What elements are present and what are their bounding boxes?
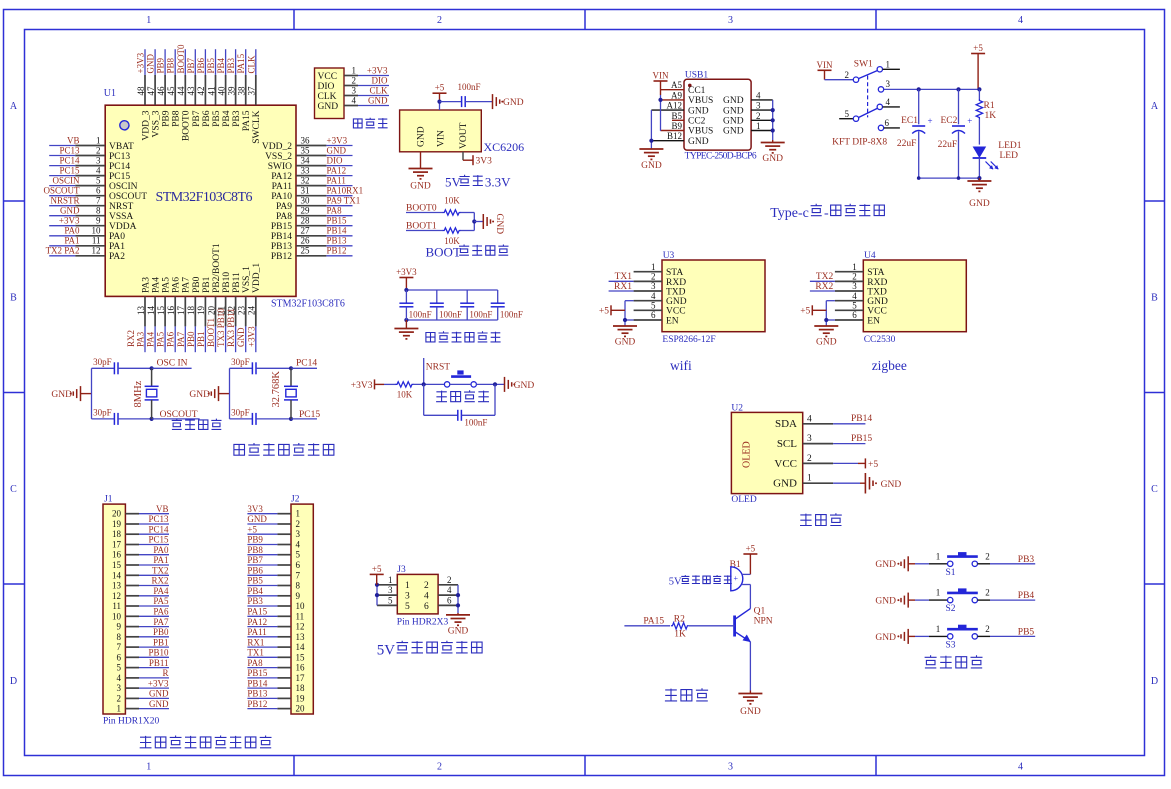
USB1 pin A5 (CC1) <box>661 89 685 91</box>
J1 pin 3 <box>125 687 139 689</box>
svg-text:12: 12 <box>112 591 121 601</box>
header J2 body <box>291 504 313 714</box>
svg-text:GND: GND <box>60 206 80 216</box>
wire net PC14 <box>139 533 169 535</box>
wire BOOT1 <box>406 230 443 232</box>
wire net PB1 <box>139 646 169 648</box>
svg-text:VCC: VCC <box>318 72 338 82</box>
wire net GND <box>49 215 75 217</box>
svg-text:VB: VB <box>67 135 80 145</box>
wire net PB5 <box>247 585 277 587</box>
wire net PB3 <box>235 49 237 75</box>
wire net PB10 <box>139 656 169 658</box>
svg-text:+5: +5 <box>599 307 609 317</box>
svg-text:16: 16 <box>166 306 176 316</box>
svg-text:14: 14 <box>296 642 306 652</box>
svg-text:2: 2 <box>96 145 101 155</box>
svg-text:CLK: CLK <box>318 92 337 102</box>
svg-text:PB3: PB3 <box>232 110 242 127</box>
svg-text:+: + <box>967 116 972 126</box>
resistor 10K upper <box>443 210 461 215</box>
wire net PB14 <box>326 235 352 237</box>
J2 pin 1 <box>277 513 291 515</box>
left vertical wire <box>91 368 93 419</box>
svg-text:3: 3 <box>756 101 761 111</box>
title 单片机引脚外引排针 <box>140 736 152 748</box>
wire net PA7 <box>184 326 186 352</box>
buzzer terminals <box>742 573 750 575</box>
svg-text:BOOT0: BOOT0 <box>176 44 186 73</box>
svg-text:3: 3 <box>886 79 891 89</box>
wire net PB13 <box>326 245 352 247</box>
wire net TX3 PB10 <box>225 326 227 352</box>
svg-text:PA9: PA9 <box>276 202 292 212</box>
J1 pin 12 <box>125 595 139 597</box>
svg-text:TX2 PA2: TX2 PA2 <box>46 246 80 256</box>
svg-text:PB10: PB10 <box>222 272 232 293</box>
svg-text:2: 2 <box>352 76 357 86</box>
svg-text:+: + <box>928 116 933 126</box>
stub to ground <box>474 221 483 223</box>
svg-text:4: 4 <box>424 592 429 602</box>
wire net TX2 <box>139 574 169 576</box>
svg-text:USB1: USB1 <box>685 71 708 81</box>
svg-text:45: 45 <box>166 86 176 96</box>
svg-text:3: 3 <box>807 434 812 444</box>
svg-text:GND: GND <box>448 627 469 637</box>
svg-text:PA1: PA1 <box>64 236 79 246</box>
svg-text:U3: U3 <box>663 251 675 261</box>
svg-text:+3V3: +3V3 <box>396 267 417 277</box>
svg-text:A: A <box>1151 101 1159 112</box>
svg-text:17: 17 <box>296 673 306 683</box>
U1 pin 38 (PA15) <box>245 75 247 105</box>
U1 pin 43 (PB7) <box>194 75 196 105</box>
svg-text:+3V3: +3V3 <box>351 381 373 391</box>
svg-text:5: 5 <box>651 301 656 311</box>
wire net PB0 <box>194 326 196 352</box>
U3 pin 6 (EN) <box>634 319 662 321</box>
svg-text:VCC: VCC <box>666 307 686 317</box>
svg-text:PB15: PB15 <box>247 668 268 678</box>
capacitor 100nF #1 <box>405 290 407 303</box>
dashed link <box>867 76 869 118</box>
svg-text:LED1: LED1 <box>998 141 1021 151</box>
wire net GND <box>358 105 389 107</box>
U1 pin 1 (VBAT) <box>75 145 105 147</box>
svg-text:1: 1 <box>146 762 151 773</box>
wire net +3V3 <box>144 49 146 75</box>
svg-text:2: 2 <box>424 581 429 591</box>
svg-text:PB3: PB3 <box>226 57 236 73</box>
wire net BOOT0 <box>184 49 186 75</box>
title 单片机最小系统 <box>234 444 245 455</box>
USB1 right pin 4 (GND) <box>751 99 773 101</box>
J1 pin 7 <box>125 646 139 648</box>
svg-text:PA15: PA15 <box>643 616 664 626</box>
svg-text:6: 6 <box>885 118 890 128</box>
J2 pin 2 <box>277 523 291 525</box>
svg-text:PB0: PB0 <box>153 627 169 637</box>
svg-text:PC15: PC15 <box>59 165 80 175</box>
svg-text:+3V3: +3V3 <box>136 52 146 73</box>
wire +5 to VIN <box>439 102 441 110</box>
U1 pin 5 (OSCIN) <box>75 185 105 187</box>
svg-text:VDD_1: VDD_1 <box>252 263 262 293</box>
USB1 right pin 1 (GND) <box>751 130 773 132</box>
svg-text:4: 4 <box>1018 15 1023 26</box>
U1 pin 15 (PA5) <box>164 296 166 326</box>
crystal 32.768K <box>290 368 292 386</box>
svg-text:RX3 PB11: RX3 PB11 <box>226 308 236 347</box>
USB1 right pin 2 (GND) <box>751 119 773 121</box>
U3 pin 3 (TXD) <box>634 290 662 292</box>
svg-text:BOOT0: BOOT0 <box>182 110 192 141</box>
svg-text:VDDA: VDDA <box>109 222 137 232</box>
svg-text:PA12: PA12 <box>247 617 267 627</box>
wire net VB <box>49 145 75 147</box>
svg-text:4: 4 <box>352 96 357 106</box>
wire net GND <box>154 49 156 75</box>
svg-text:LED: LED <box>1000 151 1019 161</box>
svg-text:7: 7 <box>96 196 101 206</box>
svg-text:GND: GND <box>149 689 169 699</box>
IC U3 body <box>662 260 765 332</box>
U3 pin 1 (STA) <box>634 271 662 273</box>
svg-text:PA12: PA12 <box>327 165 347 175</box>
svg-text:GND: GND <box>875 597 896 607</box>
U1 pin 30 (PA9) <box>296 205 326 207</box>
svg-text:5V: 5V <box>377 642 396 658</box>
USB1 pin B5 (CC2) <box>672 119 684 121</box>
svg-text:1: 1 <box>886 60 891 70</box>
J2 pin 20 <box>277 708 291 710</box>
push button S3 <box>948 634 953 639</box>
U2 pin 2 (VCC) <box>803 462 833 464</box>
svg-text:PB4: PB4 <box>247 586 263 596</box>
U1 pin 41 (PB5) <box>215 75 217 105</box>
svg-text:1: 1 <box>117 704 122 714</box>
wire net GND <box>247 523 277 525</box>
svg-text:PA11: PA11 <box>272 182 293 192</box>
svg-text:B5: B5 <box>671 111 682 121</box>
wire net DIO <box>326 165 352 167</box>
svg-text:KFT DIP-8X8: KFT DIP-8X8 <box>832 138 887 148</box>
title 复位电路 <box>436 391 447 402</box>
svg-text:U4: U4 <box>864 251 876 261</box>
U1 pin 48 (VDD_3) <box>144 75 146 105</box>
earth ground <box>814 325 838 327</box>
wire net PA10RX1 <box>326 195 352 197</box>
svg-text:30pF: 30pF <box>231 408 250 418</box>
gnd-en tie <box>625 300 634 302</box>
svg-text:GND: GND <box>875 633 896 643</box>
svg-text:VOUT: VOUT <box>459 122 469 149</box>
svg-text:15: 15 <box>156 306 166 316</box>
U2 pin 3 (SCL) <box>803 443 833 445</box>
wire to button <box>915 563 929 565</box>
svg-text:PB12: PB12 <box>247 699 267 709</box>
svg-text:1: 1 <box>352 66 357 76</box>
wire net CLK <box>358 95 389 97</box>
svg-text:PA6: PA6 <box>153 607 169 617</box>
svg-text:OSCIN: OSCIN <box>109 182 138 192</box>
J3 pin 5 stub <box>377 604 397 606</box>
capacitor 100nF <box>461 96 463 107</box>
svg-text:GND: GND <box>688 106 709 116</box>
svg-text:3: 3 <box>388 585 393 595</box>
svg-text:5: 5 <box>296 550 301 560</box>
bar ground rotated GND <box>482 214 484 229</box>
svg-text:A12: A12 <box>667 101 683 111</box>
earth ground USB right <box>772 140 774 143</box>
U1 pin 18 (PB0) <box>194 296 196 326</box>
wire net PA1 <box>49 245 75 247</box>
wire net +3V3 <box>255 326 257 352</box>
svg-text:17: 17 <box>176 306 186 316</box>
svg-text:2: 2 <box>117 693 122 703</box>
svg-text:39: 39 <box>226 86 236 96</box>
svg-text:R: R <box>162 668 168 678</box>
U3 pin 5 (VCC) <box>634 309 662 311</box>
svg-text:2: 2 <box>845 70 850 80</box>
svg-text:S1: S1 <box>945 568 955 578</box>
svg-text:11: 11 <box>112 601 121 611</box>
svg-text:SW1: SW1 <box>854 60 873 70</box>
svg-text:VIN: VIN <box>437 130 447 147</box>
capacitor 100nF #2 <box>436 290 438 303</box>
svg-text:2: 2 <box>985 551 990 561</box>
svg-text:PB1: PB1 <box>202 276 212 293</box>
svg-text:PB0: PB0 <box>192 276 202 293</box>
wire net +5 <box>247 533 277 535</box>
svg-text:PC14: PC14 <box>59 155 80 165</box>
J2 pin 11 <box>277 615 291 617</box>
svg-text:SDA: SDA <box>775 418 797 430</box>
svg-text:100nF: 100nF <box>464 418 487 428</box>
wire net PB9 <box>164 49 166 75</box>
svg-text:PA12: PA12 <box>271 172 292 182</box>
svg-text:CLK: CLK <box>370 86 389 96</box>
U4 pin 2 (RXD) <box>835 280 863 282</box>
svg-text:11: 11 <box>92 236 101 246</box>
title 晶振电路 <box>172 419 182 430</box>
svg-text:A: A <box>10 101 18 112</box>
U4 pin 4 (GND) <box>835 300 863 302</box>
svg-text:PA6: PA6 <box>166 331 176 347</box>
J3 pin 1 stub <box>377 584 397 586</box>
border column ticks <box>293 10 295 30</box>
svg-text:19: 19 <box>112 519 122 529</box>
svg-text:A5: A5 <box>671 80 682 90</box>
svg-text:PA11: PA11 <box>247 627 266 637</box>
wire net PB6 <box>247 574 277 576</box>
svg-text:PB13: PB13 <box>327 236 348 246</box>
svg-text:PA0: PA0 <box>153 545 169 555</box>
J2 pin 4 <box>277 544 291 546</box>
download header pin 2 (DIO) <box>344 85 358 87</box>
svg-text:PA6: PA6 <box>172 277 182 293</box>
U1 pin 22 (PB11) <box>235 296 237 326</box>
wire net PA4 <box>139 595 169 597</box>
svg-text:RXD: RXD <box>867 278 887 288</box>
svg-text:8MHz: 8MHz <box>133 380 144 407</box>
J1 pin 13 <box>125 585 139 587</box>
U1 pin 25 (PB12) <box>296 255 326 257</box>
wire net RX2 <box>810 290 835 292</box>
svg-text:PC14: PC14 <box>148 524 169 534</box>
J3 pin 6 stub <box>438 604 458 606</box>
wire net 3V3 <box>247 513 277 515</box>
push button S2 <box>948 597 953 602</box>
svg-text:6: 6 <box>447 595 452 605</box>
svg-text:GND: GND <box>410 182 431 192</box>
svg-text:PB4: PB4 <box>1018 591 1035 601</box>
wire net PB12 <box>326 255 352 257</box>
wire net PA8 <box>326 215 352 217</box>
svg-text:6: 6 <box>651 310 656 320</box>
J3 pin 2 stub <box>438 584 458 586</box>
title 显示屏 <box>800 514 812 526</box>
svg-text:6: 6 <box>852 310 857 320</box>
svg-text:2: 2 <box>437 15 442 26</box>
svg-text:1: 1 <box>146 15 151 26</box>
J1 pin 11 <box>125 605 139 607</box>
wire net GND <box>139 697 169 699</box>
svg-text:PA1: PA1 <box>153 555 168 565</box>
svg-text:4: 4 <box>96 165 101 175</box>
svg-text:RX2: RX2 <box>151 576 168 586</box>
svg-text:PB0: PB0 <box>186 331 196 347</box>
svg-text:VSSA: VSSA <box>109 212 133 222</box>
svg-text:13: 13 <box>136 306 146 316</box>
svg-text:22uF: 22uF <box>897 139 917 149</box>
svg-text:STM32F103C8T6: STM32F103C8T6 <box>156 190 253 205</box>
svg-text:STA: STA <box>666 268 683 278</box>
svg-text:13: 13 <box>296 632 306 642</box>
power +5 buzzer <box>743 553 757 555</box>
wire net PB8 <box>174 49 176 75</box>
J2 pin 8 <box>277 585 291 587</box>
svg-text:GND: GND <box>149 699 169 709</box>
wire net PC14 <box>49 165 75 167</box>
svg-text:PB9: PB9 <box>156 57 166 73</box>
base wire + resistor R2 <box>624 625 670 627</box>
svg-text:OSCOUT: OSCOUT <box>109 192 147 202</box>
U3 pin 4 (GND) <box>634 300 662 302</box>
svg-text:PA15: PA15 <box>236 53 246 73</box>
J1 pin 14 <box>125 574 139 576</box>
svg-text:1: 1 <box>405 581 410 591</box>
bar ground <box>492 94 494 109</box>
svg-text:41: 41 <box>206 87 216 96</box>
connector USB1 body <box>684 79 751 150</box>
svg-text:PA10RX1: PA10RX1 <box>327 186 364 196</box>
capacitor 100nF reset <box>457 410 459 421</box>
download header body <box>315 68 345 119</box>
wire button to net <box>978 635 991 637</box>
svg-text:11: 11 <box>296 611 305 621</box>
svg-text:4: 4 <box>886 97 891 107</box>
svg-text:8: 8 <box>296 581 301 591</box>
svg-text:+5: +5 <box>868 460 878 470</box>
filter caps bottom rail <box>406 319 497 321</box>
svg-text:6: 6 <box>117 652 122 662</box>
svg-text:ESP8266-12F: ESP8266-12F <box>662 335 715 345</box>
svg-text:5V: 5V <box>445 175 462 190</box>
svg-text:BOOT0: BOOT0 <box>406 203 437 213</box>
svg-text:3V3: 3V3 <box>476 157 493 167</box>
svg-text:TX2: TX2 <box>152 566 169 576</box>
svg-text:2: 2 <box>852 272 857 282</box>
wire net PA7 <box>139 626 169 628</box>
svg-text:PA4: PA4 <box>146 331 156 347</box>
svg-text:1: 1 <box>651 262 656 272</box>
svg-text:VIN: VIN <box>653 71 669 81</box>
U1 pin 20 (PB2/BOOT1) <box>215 296 217 326</box>
J1 pin 8 <box>125 636 139 638</box>
svg-text:PA5: PA5 <box>156 331 166 347</box>
svg-text:SCL: SCL <box>777 438 797 450</box>
svg-text:3: 3 <box>728 762 733 773</box>
svg-text:GND: GND <box>641 161 662 171</box>
wire to junction lower <box>460 230 474 232</box>
svg-text:1: 1 <box>936 551 941 561</box>
U4 pin 1 (STA) <box>835 271 863 273</box>
U2 pin 1 (GND) <box>803 482 833 484</box>
svg-text:GND: GND <box>723 117 744 127</box>
svg-text:GND: GND <box>875 560 896 570</box>
wire net GND <box>245 326 247 352</box>
wire net PA8 <box>247 667 277 669</box>
svg-text:PB3: PB3 <box>247 596 263 606</box>
svg-text:8: 8 <box>96 206 101 216</box>
svg-text:STM32F103C8T6: STM32F103C8T6 <box>271 299 345 310</box>
U1 pin 45 (PB8) <box>174 75 176 105</box>
bar ground OLED <box>864 473 866 494</box>
svg-text:PA5: PA5 <box>153 596 169 606</box>
svg-text:3: 3 <box>352 86 357 96</box>
svg-text:38: 38 <box>237 86 247 96</box>
svg-text:2: 2 <box>447 575 452 585</box>
regulator U XC6206 body <box>400 110 482 152</box>
wire net PA6 <box>139 615 169 617</box>
wire net PC13 <box>49 155 75 157</box>
svg-text:27: 27 <box>301 226 311 236</box>
U1 pin 46 (PB9) <box>164 75 166 105</box>
svg-text:J3: J3 <box>397 565 406 575</box>
wire net GND <box>326 155 352 157</box>
svg-text:XC6206: XC6206 <box>484 140 525 154</box>
J1 pin 5 <box>125 667 139 669</box>
LED arrows <box>986 162 994 170</box>
svg-text:2: 2 <box>437 762 442 773</box>
wire net PC15 <box>139 544 169 546</box>
svg-text:6: 6 <box>424 602 429 612</box>
push button S1 <box>948 561 953 566</box>
wire net RX1 <box>247 646 277 648</box>
svg-text:TX1: TX1 <box>247 648 264 658</box>
J1 pin 19 <box>125 523 139 525</box>
svg-text:3: 3 <box>96 155 101 165</box>
capacitor 100nF #4 <box>497 290 499 303</box>
svg-text:24: 24 <box>247 306 257 316</box>
crystal 8MHz <box>151 368 153 386</box>
wire net BOOT1 <box>215 326 217 352</box>
U1 pin 8 (VSSA) <box>75 215 105 217</box>
right pins common wire <box>772 100 774 140</box>
download header pin 1 (VCC) <box>344 75 358 77</box>
